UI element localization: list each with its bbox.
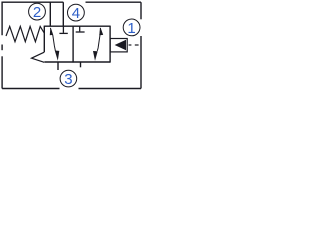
body right edge bbox=[109, 26, 111, 63]
background bbox=[0, 0, 144, 92]
spring bbox=[6, 26, 44, 41]
port 3 label bbox=[60, 70, 77, 88]
port 2 line bbox=[49, 2, 51, 26]
svg-text:2: 2 bbox=[33, 4, 41, 21]
envelope top border right part bbox=[86, 1, 142, 3]
right box blocked port bbox=[76, 26, 85, 32]
body centre division bbox=[72, 26, 74, 63]
drain triangle (unfilled, pointing left) bbox=[32, 52, 45, 62]
port 3 line right bbox=[80, 62, 82, 67]
valve body boxes bbox=[44, 26, 110, 63]
pilot box bbox=[110, 39, 127, 52]
svg-text:4: 4 bbox=[72, 5, 80, 22]
envelope right border lower bbox=[140, 36, 142, 89]
port 1 label bbox=[123, 19, 140, 37]
svg-text:3: 3 bbox=[64, 71, 72, 88]
left box blocked port bbox=[59, 26, 67, 33]
port 4 line bbox=[62, 2, 64, 26]
body bottom edge bbox=[44, 61, 110, 63]
body top edge bbox=[44, 25, 110, 27]
envelope left border lower bbox=[1, 56, 3, 88]
right box flow arrow bbox=[93, 27, 103, 61]
left box flow arrow bbox=[50, 27, 60, 61]
envelope bottom border left part bbox=[2, 88, 59, 90]
pilot dashed line bbox=[129, 44, 139, 46]
envelope left border dash bbox=[1, 45, 3, 51]
body left edge bbox=[43, 26, 45, 53]
envelope bottom border right part bbox=[79, 88, 142, 90]
svg-text:1: 1 bbox=[127, 20, 135, 37]
pilot triangle (filled, pointing left) bbox=[116, 40, 126, 49]
port 2 label bbox=[29, 3, 46, 21]
envelope right border upper bbox=[140, 2, 142, 19]
port 4 label bbox=[68, 4, 85, 22]
envelope top border left part bbox=[2, 2, 63, 35]
port 3 line left bbox=[57, 62, 59, 70]
